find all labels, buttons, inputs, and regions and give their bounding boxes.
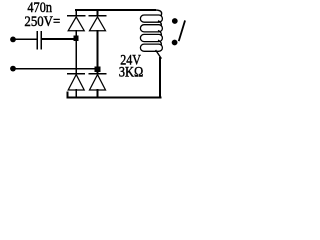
svg-text:3KΩ: 3KΩ <box>119 64 144 80</box>
plus rail top from bridge to coil <box>76 9 155 11</box>
terminal dot input bottom <box>10 66 16 72</box>
wire node AC1 down to D3 crossing AC2 <box>75 41 77 74</box>
terminal dot input top <box>10 37 16 43</box>
diode D2 top-right cathode stub <box>97 10 99 16</box>
junction square node AC1 <box>74 36 79 41</box>
relay coil connector 1-2 <box>159 21 162 26</box>
capacitor C1 right plate <box>40 32 42 49</box>
wire D3 anode to minus rail <box>75 90 77 97</box>
wire input top to capacitor <box>15 38 37 40</box>
diode D3 triangle <box>68 75 84 90</box>
relay coil loop 2 <box>140 25 162 32</box>
diode D2 cathode bar <box>89 15 105 17</box>
relay contact terminal dot bottom <box>172 40 178 46</box>
minus rail bottom <box>68 92 161 97</box>
diode D4 bottom-right cathode bar <box>89 73 105 75</box>
diode D1 triangle <box>68 17 84 31</box>
svg-text:250V=: 250V= <box>24 14 60 30</box>
relay contact terminal dot top <box>172 18 178 24</box>
relay coil loop 1 <box>140 15 162 22</box>
diode D1 top-left cathode stub <box>75 10 77 16</box>
relay coil connector 3-4 <box>159 40 162 45</box>
wire D2 anode down to node AC2 <box>97 31 99 67</box>
relay coil loop 4 <box>140 44 162 51</box>
relay coil connector 2-3 <box>159 31 162 36</box>
wire D1 anode to node AC1 <box>75 31 77 36</box>
wire coil bottom to minus rail <box>159 58 161 98</box>
relay coil loop 3 <box>140 34 162 41</box>
wire capacitor to bridge node AC1 <box>42 38 76 40</box>
relay contact blade <box>179 21 185 40</box>
wire input bottom to bridge node AC2 <box>15 68 98 70</box>
capacitor C1 left plate <box>36 32 38 49</box>
relay coil exit to minus rail <box>156 51 161 58</box>
wire node AC2 to D4 bar <box>97 72 99 74</box>
diode D1 cathode bar <box>68 15 85 17</box>
junction square node AC2 <box>95 66 101 71</box>
wire D4 anode to minus rail <box>97 90 99 97</box>
diode D4 triangle <box>90 75 106 90</box>
diode D3 bottom-left cathode bar <box>68 73 85 75</box>
relay coil RY1 entry hook <box>154 10 162 15</box>
diode D2 triangle <box>90 17 106 31</box>
